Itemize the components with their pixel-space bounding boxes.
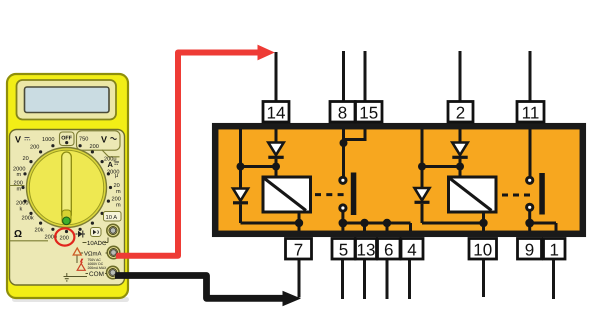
svg-text:200mA MAX: 200mA MAX — [88, 266, 108, 270]
black wire from COM jack — [115, 276, 284, 299]
wire pin2 to diode D3 — [459, 129, 462, 143]
red lightning — [80, 259, 84, 267]
top external wire pin 8 — [342, 51, 345, 102]
relay coil K1 — [263, 177, 311, 212]
wire bottom middle — [343, 223, 411, 231]
multimeter M1 — [7, 45, 301, 307]
COM label — [86, 273, 108, 275]
svg-text:V: V — [101, 135, 107, 145]
svg-text:m: m — [116, 203, 121, 209]
svg-text:200: 200 — [30, 145, 39, 151]
svg-text:k: k — [20, 206, 23, 213]
black wire arrowhead — [283, 291, 302, 306]
pin 11 box — [517, 102, 544, 123]
svg-text:Ω: Ω — [14, 229, 22, 240]
bottom external wire pin 6 — [386, 259, 389, 299]
pointer notch — [62, 210, 71, 224]
svg-text:6: 6 — [384, 240, 393, 259]
wire S2 bottom — [528, 211, 531, 223]
pin 14 box — [263, 102, 289, 123]
node pin7 junction — [295, 219, 303, 227]
node C1 — [456, 163, 464, 171]
node S1 bottom — [339, 219, 348, 228]
connector line — [67, 256, 87, 277]
svg-text:m: m — [116, 189, 121, 195]
svg-text:20k: 20k — [35, 227, 44, 234]
pin 7 box — [286, 239, 312, 260]
svg-text:V: V — [15, 135, 21, 145]
svg-text:200k: 200k — [22, 215, 34, 222]
OFF box — [60, 132, 75, 146]
svg-text:10ADC: 10ADC — [87, 240, 107, 247]
contact S1 terminal bottom — [340, 205, 346, 211]
top external wire pin 11 — [529, 51, 532, 102]
LCD display bezel — [17, 80, 117, 120]
warning triangle 2 — [77, 264, 85, 271]
svg-text:A: A — [108, 160, 114, 169]
diode D3 — [452, 143, 467, 158]
wire D3 to node C1 — [459, 159, 462, 177]
red wire arrowhead — [258, 45, 275, 61]
node pin13 — [360, 219, 368, 227]
knob pointer — [62, 152, 72, 219]
wire pin11 down — [529, 129, 532, 177]
diode D1 — [268, 143, 283, 158]
bottom external wire pin 7 — [298, 259, 301, 298]
wire pin15 jog — [344, 129, 366, 140]
svg-text:8: 8 — [338, 103, 347, 122]
svg-text:1000: 1000 — [42, 137, 54, 143]
relay coil K2 — [449, 177, 497, 212]
multimeter shadow — [12, 297, 129, 302]
bottom external wire pin 10 — [482, 259, 485, 297]
svg-text:μ: μ — [115, 173, 118, 179]
svg-text:11: 11 — [522, 103, 540, 122]
diode D4 — [415, 188, 430, 202]
svg-text:5: 5 — [339, 240, 348, 259]
dial knob — [29, 150, 103, 224]
wire S1 bottom — [341, 212, 344, 224]
contact S2 blade — [539, 173, 545, 215]
wire node C horizontal — [422, 165, 460, 168]
svg-text:OFF: OFF — [61, 136, 72, 142]
wire right cell left branch — [421, 129, 424, 189]
continuity box — [91, 228, 102, 237]
wire pin14 to diode D1 — [275, 129, 278, 143]
A zone border — [102, 150, 120, 157]
pin 13 box — [356, 239, 377, 260]
pin 15 box — [356, 102, 383, 123]
svg-text:15: 15 — [359, 103, 378, 122]
top external wire pin 15 — [364, 51, 367, 102]
wire left branch top — [239, 129, 242, 189]
red selection circle — [55, 228, 74, 245]
red wire from VOmA jack — [116, 53, 259, 256]
bottom external wire pin 4 — [408, 259, 411, 299]
V~ zone border — [77, 131, 121, 150]
wire bottom left cell — [241, 222, 300, 225]
svg-text:VΩmA: VΩmA — [84, 251, 102, 258]
dashed link K2-S2 — [502, 194, 530, 197]
svg-text:COM: COM — [89, 271, 104, 278]
pin 10 box — [469, 239, 497, 260]
top external wire pin 2 — [459, 51, 462, 102]
top external wire pin 14 — [275, 52, 278, 102]
panel divider lines — [10, 186, 49, 241]
wire D4 to bottom — [421, 204, 424, 223]
contact S2 terminal top — [527, 177, 533, 183]
contact S1 blade — [351, 173, 357, 216]
VOmA label — [81, 252, 108, 254]
wire pin8 down — [342, 129, 345, 177]
10ADC label — [83, 238, 109, 243]
svg-text:2: 2 — [456, 103, 465, 122]
dial outer ring — [27, 148, 107, 228]
multimeter body — [7, 74, 128, 298]
node B1 — [340, 139, 348, 147]
range dots — [21, 141, 112, 233]
svg-text:1: 1 — [549, 240, 558, 259]
svg-text:10: 10 — [473, 240, 492, 259]
green dot — [63, 217, 71, 225]
node C2 — [418, 163, 426, 171]
pin 6 box — [378, 239, 401, 260]
wire to pins 9 and 1 — [530, 223, 556, 231]
dashed link K1-S1 — [315, 193, 344, 196]
svg-text:9: 9 — [525, 240, 534, 259]
svg-text:4: 4 — [407, 240, 416, 259]
diode D2 — [233, 189, 248, 203]
ground symbol — [64, 277, 71, 281]
jack 10ADC — [107, 224, 119, 236]
svg-text:m: m — [17, 187, 22, 193]
dial panel — [10, 130, 125, 286]
warning triangle 1 — [73, 248, 81, 255]
pin 9 box — [518, 239, 542, 260]
pin 2 box — [448, 102, 473, 123]
svg-text:7: 7 — [294, 240, 303, 259]
svg-text:200: 200 — [90, 144, 99, 150]
svg-text:20: 20 — [23, 156, 29, 162]
diode icon — [76, 231, 86, 238]
wire node A1 horizontal — [241, 165, 277, 168]
LCD screen — [25, 87, 110, 113]
node pin10 junction — [479, 219, 487, 227]
node pin6 — [383, 219, 391, 227]
10A box — [104, 212, 122, 222]
svg-text:200: 200 — [60, 236, 69, 242]
node S2 bottom — [525, 219, 534, 228]
pin 8 box — [330, 102, 355, 123]
bottom external wire pin 13 — [363, 259, 366, 299]
bottom external wire pin 5 — [341, 259, 344, 299]
wire K1 bottom — [298, 212, 301, 231]
wire K2 bottom — [482, 212, 485, 231]
svg-text:14: 14 — [267, 103, 286, 122]
svg-text:10 A: 10 A — [106, 214, 118, 221]
pin 4 box — [401, 239, 423, 260]
pin 1 box — [544, 239, 566, 260]
svg-text:750: 750 — [79, 137, 88, 143]
wire bottom right cell — [422, 222, 487, 225]
jack VOmA — [107, 246, 119, 258]
jack COM — [107, 266, 119, 278]
pin 5 box — [332, 239, 355, 260]
svg-text:13: 13 — [357, 240, 376, 259]
contact S2 terminal bottom — [527, 204, 533, 210]
node A2 — [237, 163, 245, 171]
svg-text:m: m — [17, 172, 22, 178]
relay box body — [215, 126, 583, 234]
bottom external wire pin 1 — [552, 259, 555, 299]
contact S1 terminal top — [340, 177, 346, 183]
wire D2 to bottom — [239, 204, 242, 223]
node A1 — [272, 163, 280, 171]
wire D1 to node A1 — [275, 159, 278, 177]
